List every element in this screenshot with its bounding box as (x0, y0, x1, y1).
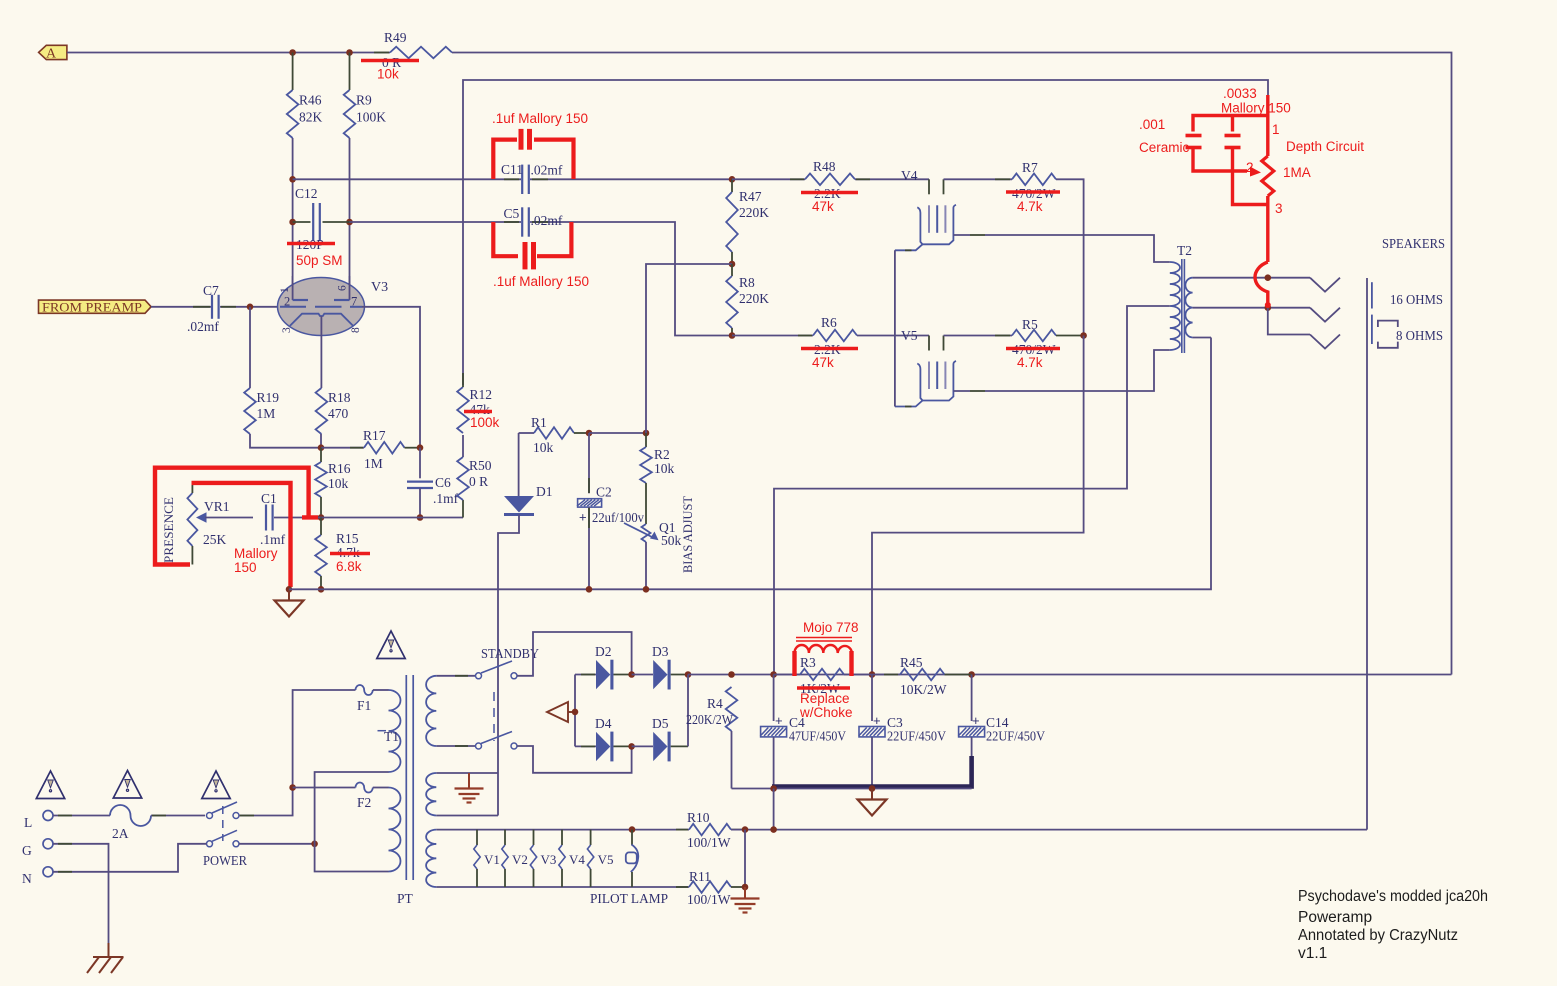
svg-text:C11: C11 (501, 162, 523, 177)
svg-text:R49: R49 (384, 30, 407, 45)
switch STANDBY pole 1 (476, 673, 482, 679)
svg-text:6: 6 (337, 285, 349, 291)
svg-text:R46: R46 (299, 93, 322, 108)
svg-text:1M: 1M (257, 406, 276, 421)
resistor R5 470/2W->4.7k screen V5 (944, 335, 1013, 337)
wire bridge right side (687, 675, 689, 747)
svg-text:D1: D1 (536, 484, 553, 499)
svg-text:50p SM: 50p SM (296, 253, 343, 268)
svg-text:L: L (24, 815, 32, 830)
junction R15 bottom node (318, 586, 325, 593)
svg-text:47k: 47k (812, 199, 834, 214)
wire B+ rail (688, 674, 1452, 676)
wire N to power switch pole 2 (53, 844, 207, 872)
svg-text:16 OHMS: 16 OHMS (1390, 292, 1443, 307)
V3 plate pin 6 bar (349, 276, 351, 300)
svg-text:C7: C7 (203, 283, 219, 298)
svg-text:Annotated by CrazyNutz: Annotated by CrazyNutz (1298, 927, 1458, 944)
svg-text:.1mf: .1mf (260, 532, 286, 547)
svg-text:R3: R3 (800, 655, 816, 670)
svg-text:R45: R45 (900, 655, 923, 670)
T2 secondary mid lead (1193, 307, 1310, 309)
warning triangle 2 (113, 771, 141, 799)
junction Q1 bottom (643, 586, 650, 593)
V3 grid bars (280, 306, 306, 308)
wire switch to T1 primary F1 (239, 690, 356, 816)
svg-text:w/Choke: w/Choke (799, 705, 853, 720)
resistor R8 220K (731, 264, 733, 276)
svg-text:SPEAKERS: SPEAKERS (1382, 236, 1445, 251)
svg-text:R6: R6 (821, 315, 837, 330)
junction R1 / C2 node (586, 430, 593, 437)
svg-text:C6: C6 (435, 475, 451, 490)
wire R47-R8 node to R2 line (646, 264, 732, 433)
junction presence ground node (286, 586, 293, 593)
svg-text:82K: 82K (299, 110, 323, 125)
svg-text:22UF/450V: 22UF/450V (887, 729, 946, 744)
svg-text:2: 2 (1246, 160, 1254, 175)
svg-text:R15: R15 (336, 531, 359, 546)
junction bridge minus node (572, 709, 579, 716)
junction bridge top mid (628, 671, 635, 678)
terminal L (43, 811, 53, 821)
junction R10 right (742, 826, 749, 833)
svg-text:7: 7 (351, 295, 357, 309)
diode D4 (575, 745, 596, 747)
junction R46 / C11 line (289, 176, 296, 183)
svg-text:.1uf Mallory 150: .1uf Mallory 150 (492, 111, 588, 126)
resistor R49 (374, 52, 389, 54)
fuse 2A (110, 805, 151, 826)
svg-text:R10: R10 (687, 810, 710, 825)
net arrow bias takeoff (547, 702, 568, 722)
wire R46 bottom to V3 plate pin 1 (292, 138, 294, 300)
wire R19 bottom to R18 node (250, 434, 321, 448)
svg-text:Mallory 150: Mallory 150 (1221, 101, 1291, 116)
svg-text:1: 1 (279, 287, 291, 293)
svg-text:1MA: 1MA (1283, 165, 1311, 180)
resistor R17 1M (321, 447, 364, 449)
fuse F1 (356, 685, 373, 695)
svg-text:C1: C1 (261, 491, 277, 506)
svg-text:100K: 100K (356, 110, 386, 125)
T1 bias winding (426, 773, 436, 816)
diode D3 (632, 674, 653, 676)
wire V4 cathode to V5 cathode (894, 250, 896, 406)
svg-text:.02mf: .02mf (531, 163, 563, 178)
svg-text:2: 2 (284, 295, 290, 309)
junction R18/R16/R17 node (318, 444, 325, 451)
terminal G (43, 839, 53, 849)
wire to 8 ohm jack (1268, 308, 1310, 335)
svg-text:POWER: POWER (203, 853, 247, 868)
red mod wire outline around presence network (155, 468, 318, 587)
V4 plate lead to T2 (953, 234, 970, 236)
svg-text:R9: R9 (356, 93, 372, 108)
junction top rail / R46 (289, 49, 296, 56)
svg-text:25K: 25K (203, 532, 227, 547)
svg-text:V4: V4 (901, 168, 918, 183)
capacitor C14 22UF/450V (971, 675, 973, 722)
svg-text:G: G (22, 843, 32, 858)
T2 secondary top lead to 16 ohm jack (1193, 277, 1310, 279)
resistor R45 10K/2W (872, 674, 900, 676)
transformer T2 primary winding (1170, 262, 1180, 350)
svg-text:.001: .001 (1139, 117, 1165, 132)
wire switch pole 2 to T1 primary 2 (239, 843, 315, 845)
resistor R9 (349, 53, 351, 91)
svg-text:4.7k: 4.7k (1017, 199, 1043, 214)
junction R5/R7 screen node (1080, 332, 1087, 339)
svg-text:STANDBY: STANDBY (481, 646, 539, 661)
junction R4 top (728, 671, 735, 678)
T2 secondary bottom lead to feedback line (1193, 337, 1211, 339)
svg-text:10k: 10k (377, 67, 399, 82)
potentiometer VR1 PRESENCE 25K (187, 493, 197, 546)
svg-text:R2: R2 (654, 447, 670, 462)
svg-text:+: + (579, 510, 587, 525)
resistor R46 (292, 53, 294, 91)
wire top rail from A to R49 (67, 52, 390, 54)
junction bridge bottom mid (628, 743, 635, 750)
wire C11 line from R46 junction to phase splitter (293, 178, 521, 180)
svg-text:R8: R8 (739, 275, 755, 290)
svg-text:R16: R16 (328, 461, 351, 476)
svg-text:V5: V5 (901, 328, 918, 343)
svg-text:22UF/450V: 22UF/450V (986, 729, 1045, 744)
svg-text:8: 8 (350, 327, 362, 333)
capacitor C6 .1mf (419, 448, 421, 479)
junction C6 bottom node (417, 514, 424, 521)
ground symbol B+ filter (871, 789, 873, 800)
resistor R4 220K/2W (726, 687, 738, 731)
fuse F2 (293, 787, 356, 789)
svg-text:T1: T1 (384, 729, 399, 744)
svg-text:47UF/450V: 47UF/450V (789, 729, 846, 744)
T2 core (1181, 259, 1183, 353)
wire HT bottom to standby switch (436, 745, 475, 747)
svg-text:Ceramic: Ceramic (1139, 140, 1190, 155)
svg-text:BIAS ADJUST: BIAS ADJUST (680, 496, 695, 573)
capacitor C1 .1mf (265, 505, 267, 531)
junction F2 branch (289, 784, 296, 791)
junction R46-C12 node (289, 219, 296, 226)
svg-text:+: + (972, 713, 980, 728)
T1 core (405, 675, 407, 880)
svg-text:D4: D4 (595, 716, 612, 731)
V3 cathode stem wire to R18 (320, 316, 322, 388)
svg-text:.02mf: .02mf (531, 213, 563, 228)
red mod bypass cap .1uf across C5 (493, 222, 571, 269)
wire standby pole2 to bridge bottom (517, 746, 632, 773)
svg-text:R48: R48 (813, 159, 836, 174)
resistor R16 10k (320, 448, 322, 462)
svg-text:1: 1 (1272, 122, 1280, 137)
junction T1 primary parallel node (311, 841, 318, 848)
resistor R12 47k->100k (457, 387, 469, 433)
red mod choke Mojo 778 (795, 638, 853, 677)
junction C4 ground (770, 785, 777, 792)
capacitor C12 (293, 221, 311, 223)
svg-text:A: A (46, 47, 57, 62)
wire C1-R16-C6-R50 line (274, 517, 463, 519)
svg-text:R17: R17 (363, 428, 386, 443)
svg-text:.1mf: .1mf (433, 491, 459, 506)
speaker jack tip lines (1371, 282, 1373, 308)
wire R1-R2 link (589, 432, 646, 434)
svg-text:Mallory: Mallory (234, 546, 278, 561)
wire R6 to V5 grid (857, 335, 929, 337)
capacitor C3 22UF/450V (871, 675, 873, 722)
wire fuse to power switch (151, 815, 205, 817)
warning triangle T1 (377, 631, 405, 659)
svg-text:Psychodave's modded jca20h: Psychodave's modded jca20h (1298, 888, 1488, 905)
node A net tag (39, 45, 67, 59)
capacitor C11 .02mf (521, 165, 523, 194)
junction speaker line 1 (1265, 274, 1272, 281)
resistor R15 4.7k->6.8k (320, 518, 322, 536)
wire C5 line from C12 to phase splitter lower grid (350, 221, 522, 223)
capacitor C7 .02mf (211, 295, 213, 319)
svg-text:.0033: .0033 (1223, 86, 1257, 101)
wire heater bottom line (436, 886, 689, 888)
thick ground return wire (772, 756, 972, 787)
svg-text:D3: D3 (652, 644, 669, 659)
svg-text:R50: R50 (469, 458, 492, 473)
junction bridge plus node (685, 671, 692, 678)
bias winding loop wires (436, 772, 498, 774)
svg-text:VR1: VR1 (204, 499, 230, 514)
V3 plate pin 1 bar (292, 276, 294, 300)
junction C11 line / R47 (729, 176, 736, 183)
junction C7 / R19 node (247, 304, 254, 311)
T1 heater winding (426, 830, 436, 887)
junction C2 bottom (586, 586, 593, 593)
wire C7 to V3 grid pin 2 (220, 306, 280, 308)
speaker jack 2 contact (1310, 308, 1340, 322)
capacitor C5 .02mf (521, 207, 523, 236)
V3 cathode structure pins 3 and 8 (290, 314, 353, 326)
svg-text:4.7k: 4.7k (1017, 355, 1043, 370)
pentode V4 (928, 179, 930, 194)
junction R47/R8 node (729, 261, 736, 268)
svg-text:Replace: Replace (800, 691, 850, 706)
svg-text:R5: R5 (1022, 317, 1038, 332)
svg-text:22uf/100v: 22uf/100v (592, 510, 644, 525)
svg-text:220K/2W: 220K/2W (686, 712, 733, 727)
wire R7 to screen node (1056, 179, 1084, 335)
heater V1 (476, 830, 478, 845)
terminal N (43, 867, 53, 877)
warning triangle 3 (202, 771, 230, 799)
svg-text:v1.1: v1.1 (1298, 945, 1327, 962)
svg-text:100/1W: 100/1W (687, 835, 731, 850)
junction R8 bottom / V5 grid line (729, 332, 736, 339)
svg-text:R47: R47 (739, 189, 762, 204)
svg-text:Poweramp: Poweramp (1298, 909, 1372, 926)
depth pot 1MA (1262, 156, 1274, 196)
svg-text:F2: F2 (357, 795, 371, 810)
switch POWER pole 1 (207, 813, 213, 819)
svg-text:N: N (22, 871, 32, 886)
junction top rail / R9 (346, 49, 353, 56)
svg-text:R18: R18 (328, 390, 351, 405)
svg-text:1M: 1M (364, 456, 383, 471)
depth circuit cap .0033 plates (1186, 134, 1202, 138)
svg-text:V3: V3 (541, 852, 557, 867)
resistor R18 470 (316, 388, 328, 434)
svg-text:V4: V4 (569, 852, 585, 867)
junction R17 / C6 node (417, 444, 424, 451)
svg-text:V1: V1 (484, 852, 500, 867)
T1 HT secondary winding (426, 676, 436, 746)
svg-text:V3: V3 (371, 280, 388, 295)
depth circuit red mod wiring (1193, 95, 1268, 304)
resistor R2 10k (645, 433, 647, 447)
wire top rail from R49 to right edge, down to B+ rail (452, 53, 1452, 675)
svg-text:3: 3 (1275, 201, 1283, 216)
speaker jack 1 contact (1310, 278, 1340, 292)
junction C3 ground (869, 785, 876, 792)
earth ground bias winding (468, 773, 470, 788)
svg-text:R1: R1 (531, 415, 547, 430)
wire input to C7 (151, 306, 211, 308)
wire heater top line (436, 829, 689, 831)
wire F1 to T1 (373, 689, 389, 691)
switch STANDBY pole 2 (476, 743, 482, 749)
svg-text:220K: 220K (739, 205, 769, 220)
resistor R50 0R (462, 500, 464, 518)
svg-text:.02mf: .02mf (187, 319, 219, 334)
heater V2 (504, 830, 506, 845)
wire V3 pin7 to R17/C6 node (362, 307, 420, 448)
svg-text:R4: R4 (707, 696, 723, 711)
svg-text:T2: T2 (1177, 243, 1192, 258)
trimmer Q1 50k BIAS ADJUST (645, 483, 647, 524)
wire feedback-bias line to T2 tap (289, 338, 1211, 590)
svg-text:0 R: 0 R (469, 474, 488, 489)
svg-text:V2: V2 (512, 852, 528, 867)
junction C3 node (869, 671, 876, 678)
V5 plate lead to T2 (953, 390, 970, 392)
junction C4 node (770, 671, 777, 678)
node FROM PREAMP input tag (39, 300, 152, 313)
T2 center tap wire to B+ (774, 306, 1170, 675)
transformer T1 primary winding 2 (389, 788, 401, 872)
svg-text:47k: 47k (812, 355, 834, 370)
diode D2 (575, 674, 596, 676)
heater V5 (590, 830, 592, 845)
svg-text:PT: PT (397, 891, 414, 906)
svg-text:10K/2W: 10K/2W (900, 682, 947, 697)
heater V4 (561, 830, 563, 845)
capacitor C2 22uf/100v (588, 433, 590, 493)
svg-text:10k: 10k (654, 461, 675, 476)
resistor R7 470/2W->4.7k screen V4 (944, 178, 1013, 180)
wire ground rail (732, 788, 972, 790)
junction C12 / R9 node (346, 219, 353, 226)
switch POWER pole 2 (207, 841, 213, 847)
svg-text:100/1W: 100/1W (687, 892, 731, 907)
capacitor C4 47UF/450V (773, 675, 775, 722)
junction pilot lamp top (629, 826, 636, 833)
svg-text:6.8k: 6.8k (336, 559, 362, 574)
resistor R47 220K (731, 179, 733, 192)
wire second rail (R12 to depth circuit) (463, 80, 1268, 385)
depth circuit cap .001 plates (1225, 134, 1241, 138)
svg-text:10k: 10k (328, 476, 349, 491)
wire R9 bottom to V3 plate pin 6 (349, 138, 351, 300)
junction speaker line 2 (1265, 304, 1272, 311)
svg-text:150: 150 (234, 560, 257, 575)
speaker jack 3 contact (1310, 335, 1340, 349)
junction R2 top node (643, 430, 650, 437)
svg-text:+: + (873, 713, 881, 728)
svg-text:D2: D2 (595, 644, 612, 659)
pilot lamp (631, 830, 633, 845)
transformer T1 primary winding 1 (389, 690, 401, 772)
svg-text:C12: C12 (295, 186, 318, 201)
svg-text:220K: 220K (739, 291, 769, 306)
svg-text:FROM PREAMP: FROM PREAMP (42, 300, 142, 314)
wire G to chassis ground (53, 844, 109, 943)
svg-text:PILOT LAMP: PILOT LAMP (590, 891, 668, 906)
speaker jack sleeve line / feedback to heater rail (1366, 278, 1368, 830)
resistor R6 2.2K->47k grid stopper V5 (732, 335, 813, 337)
svg-text:100k: 100k (470, 415, 500, 430)
junction R11 right (742, 884, 749, 891)
ground symbol presence (288, 589, 290, 600)
chassis ground symbol (108, 943, 110, 957)
svg-text:+: + (775, 713, 783, 728)
wire bridge left side (574, 675, 576, 747)
resistor R11 100/1W (689, 881, 731, 893)
diode D5 (632, 745, 653, 747)
svg-text:R12: R12 (470, 387, 493, 402)
resistor R19 1M (249, 307, 251, 388)
svg-text:50k: 50k (661, 533, 682, 548)
junction C14 node (968, 671, 975, 678)
resistor R1 10k (519, 432, 534, 434)
wire C4 ground to heater rail (773, 789, 775, 830)
red mod bypass cap .1uf across C11 (493, 129, 573, 179)
wire R48 to V4 grid (855, 178, 929, 180)
svg-text:R7: R7 (1022, 160, 1038, 175)
diode D1 (518, 433, 520, 496)
svg-text:V5: V5 (598, 852, 614, 867)
junction R16 / C1 line node (318, 514, 325, 521)
svg-text:3: 3 (281, 327, 293, 333)
pentode V5 (928, 336, 930, 351)
wire T1 primary returns (315, 772, 389, 872)
wire heater rail to speakers feedback (731, 829, 1367, 831)
resistor R3 1K/2W (774, 674, 800, 676)
svg-text:470: 470 (328, 406, 349, 421)
svg-text:F1: F1 (357, 698, 371, 713)
heater V3 (533, 830, 535, 845)
wire standby pole1 to bridge top (517, 632, 632, 676)
wire HT top to standby switch (436, 675, 475, 677)
svg-text:C2: C2 (596, 485, 612, 500)
svg-text:10k: 10k (533, 440, 554, 455)
svg-text:.1uf Mallory 150: .1uf Mallory 150 (493, 274, 589, 289)
resistor R48 2.2K->47k grid stopper V4 (732, 178, 805, 180)
svg-text:R11: R11 (689, 869, 711, 884)
wire L to fuse (53, 815, 110, 817)
warning triangle 1 (36, 771, 64, 799)
svg-text:Depth Circuit: Depth Circuit (1286, 139, 1364, 154)
junction ground link (770, 826, 777, 833)
